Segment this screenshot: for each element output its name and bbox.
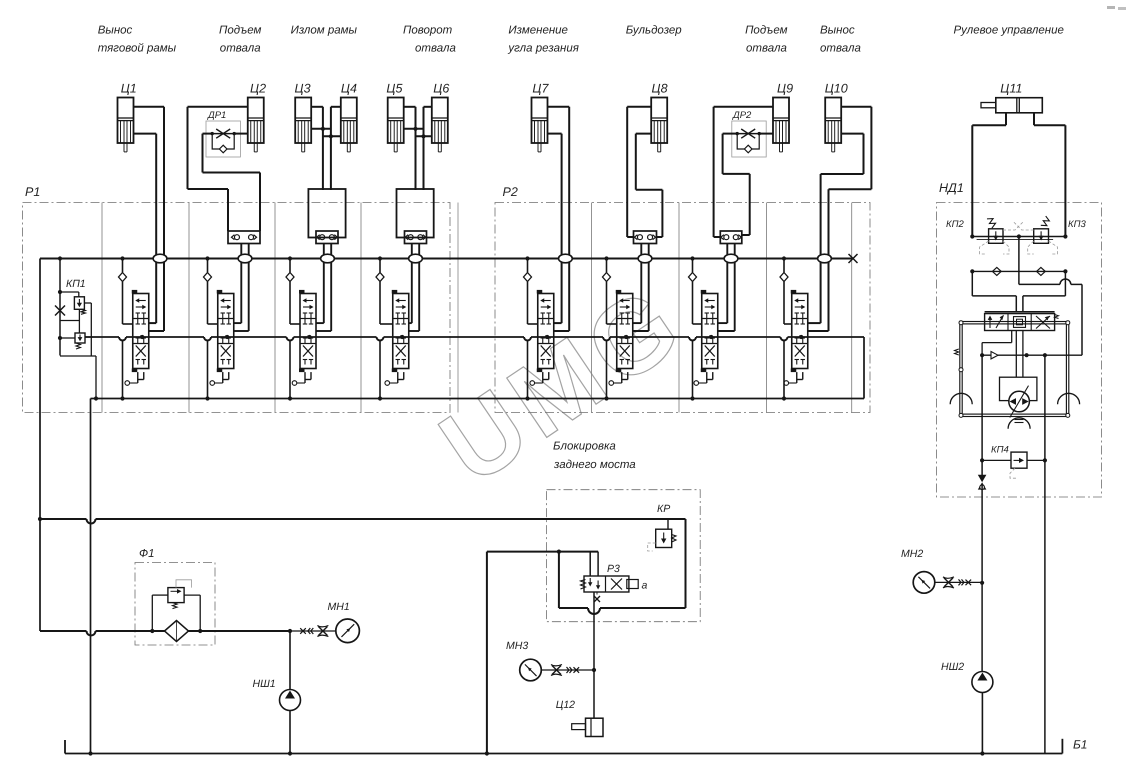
cylinder Ц1 (118, 98, 134, 152)
label Ц9 (777, 82, 793, 96)
valve section 2 spool (210, 290, 234, 385)
svg-text:КП2: КП2 (946, 219, 964, 230)
svg-text:Ц12: Ц12 (556, 699, 575, 711)
valve section 2 mid connection dot (225, 335, 229, 339)
svg-text:КП1: КП1 (66, 278, 86, 290)
hydraulic lock section 7 (720, 231, 742, 244)
valve section 1 drain to tank bus (120, 340, 124, 400)
svg-text:Ц4: Ц4 (341, 82, 357, 96)
valve section 8 feed with check valve (780, 256, 792, 324)
svg-text:а: а (642, 580, 648, 592)
cylinder Ц6 (432, 98, 448, 152)
steering spool valve (985, 312, 1059, 331)
wire spool to metering unit (1016, 331, 1023, 378)
filter Ф1 boundary (135, 548, 215, 645)
wire НД1 return to tank (1044, 355, 1046, 753)
wire pilot down to steering spool (1019, 237, 1082, 356)
svg-text:отвала: отвала (220, 43, 261, 55)
valve section 7 drain to tank bus (690, 340, 694, 400)
svg-text:Ц6: Ц6 (433, 82, 449, 96)
label group-9 Рулевое управление (954, 25, 1064, 37)
svg-text:МН3: МН3 (506, 640, 528, 652)
svg-text:заднего моста: заднего моста (553, 459, 636, 471)
svg-text:Блокировка: Блокировка (553, 441, 616, 453)
wire НД1 feed from НШ2 (980, 355, 984, 671)
label group-1 Вынос тяговой рамы (98, 25, 177, 55)
valve block P1 boundary (23, 185, 451, 413)
hydraulic lock section 4 (405, 231, 427, 244)
wire Ц9 piston side to lock (714, 107, 774, 237)
cylinder Ц9 (773, 98, 789, 152)
throttle ДР2 (732, 110, 766, 157)
label group-5 Изменение угла резания (507, 25, 579, 55)
gauge МН2 (901, 548, 982, 593)
wire Ц8 rod side to lock (636, 134, 663, 237)
gauge МН1 (290, 601, 359, 643)
label group-6 Бульдозер (626, 25, 683, 37)
cylinder Ц5 (388, 98, 404, 152)
steering unit НД1 boundary (937, 181, 1102, 497)
pump НШ2 (941, 661, 993, 756)
bridge crossing section 8 (818, 254, 832, 263)
label Ц3 (295, 82, 311, 96)
svg-text:Ц5: Ц5 (386, 82, 402, 96)
valve section 5 drain to tank bus (525, 340, 529, 400)
cylinder Ц2 (248, 98, 264, 152)
label Ц5 (386, 82, 402, 96)
svg-text:Ц9: Ц9 (777, 82, 793, 96)
pressure bus line (40, 258, 853, 260)
svg-text:Ф1: Ф1 (139, 548, 155, 560)
svg-text:Вынос: Вынос (98, 25, 133, 37)
tank line Б1 (65, 738, 1087, 754)
wire Ц11 to steering unit (972, 113, 1065, 237)
valve Р3 (581, 563, 648, 602)
svg-text:Вынос: Вынос (820, 25, 855, 37)
rear axle lock block boundary (547, 441, 701, 622)
valve section 3 mid connection dot (307, 335, 311, 339)
tank bus left drop (88, 399, 92, 756)
wire cylinder lines into spool (972, 271, 1065, 311)
label group-2 Подъем отвала (219, 25, 261, 55)
svg-text:Ц3: Ц3 (295, 82, 311, 96)
valve section 3 spool (292, 290, 316, 385)
cylinder Ц7 (532, 98, 548, 152)
svg-text:угла резания: угла резания (507, 43, 579, 55)
bridge crossing section 5 (559, 254, 573, 263)
svg-text:НШ2: НШ2 (941, 661, 964, 673)
wire Ц1 to section 1 (134, 107, 165, 331)
valve section 8 mid connection dot (799, 335, 803, 339)
svg-text:Ц2: Ц2 (250, 82, 266, 96)
valve section 6 spool (609, 290, 633, 385)
label Ц7 (532, 82, 549, 96)
filter Ф1 (150, 580, 202, 642)
label group-7 Подъем отвала (745, 25, 787, 55)
P1 section divider lines (102, 203, 458, 413)
wire filter to pump junction (189, 629, 293, 633)
label Ц2 (250, 82, 266, 96)
label Ц10 (825, 82, 848, 96)
svg-text:Изменение: Изменение (508, 25, 568, 37)
svg-text:отвала: отвала (415, 43, 456, 55)
wire Ц7 to section 5 (547, 107, 569, 331)
svg-text:Р1: Р1 (25, 185, 40, 199)
pressure bus plug X (849, 254, 858, 263)
svg-text:Р3: Р3 (607, 563, 620, 575)
valve section 3 feed with check valve (286, 256, 300, 324)
bridge crossing section 4 (409, 254, 423, 263)
valve section 5 feed with check valve (524, 256, 538, 324)
cylinder Ц11 (981, 98, 1042, 113)
valve section 2 feed with check valve (204, 256, 218, 324)
gallery to tank right end (863, 337, 865, 399)
connector box section 4 (397, 189, 434, 238)
wire КП2-КП3 crossline (970, 234, 1067, 239)
svg-text:НШ1: НШ1 (253, 678, 276, 690)
label Ц4 (341, 82, 357, 96)
cylinder Ц3 (295, 98, 311, 152)
svg-text:МН2: МН2 (901, 548, 923, 560)
label Ц8 (652, 82, 668, 96)
relief valve КП1 (55, 256, 98, 400)
lock foot section 4 (409, 244, 419, 332)
label group-3 Излом рамы (291, 25, 358, 37)
valve section 1 mid connection dot (140, 335, 144, 339)
svg-text:Р2: Р2 (503, 185, 518, 199)
relief valve КР (648, 503, 676, 551)
valve section 4 drain to tank bus (378, 340, 382, 400)
svg-text:МН1: МН1 (328, 601, 350, 613)
wire Ц9 rod side via ДР2 to lock (723, 134, 774, 235)
valve section 7 mid connection dot (709, 335, 713, 339)
connector box section 3 (308, 189, 345, 238)
steering pilot line (980, 331, 1082, 359)
svg-text:Рулевое управление: Рулевое управление (954, 25, 1064, 37)
valve section 5 spool (530, 290, 554, 385)
return line into filter (40, 631, 165, 636)
svg-text:Ц1: Ц1 (121, 82, 137, 96)
valve section 7 spool (694, 290, 718, 385)
lock foot section 7 (718, 244, 735, 332)
bridge crossing section 3 (321, 254, 335, 263)
label Ц6 (433, 82, 449, 96)
check valve bottom (978, 475, 987, 490)
bridge crossing section 6 (638, 254, 652, 263)
pressure line left drop (38, 259, 42, 632)
cylinder Ц10 (825, 98, 841, 152)
bridge crossing section 7 (724, 254, 738, 263)
watermark UMG (421, 263, 704, 507)
torque link arcs (950, 393, 1079, 428)
pressure tap line to rear-axle block (40, 519, 686, 756)
valve section 8 spool (784, 290, 808, 385)
svg-text:КП3: КП3 (1068, 219, 1086, 230)
wire Ц2 rod side via ДР1 to lock (203, 134, 261, 231)
cylinder Ц4 (341, 98, 357, 152)
valve section 6 mid connection dot (624, 335, 628, 339)
svg-text:Излом рамы: Излом рамы (291, 25, 358, 37)
valve section 4 feed with check valve (376, 256, 393, 324)
wire Р3 to Ц12 (592, 592, 596, 718)
lock foot section 2 (234, 244, 249, 332)
wire Ц10 rod side to section 8 (808, 134, 864, 324)
relief valve КП4 (980, 445, 1047, 479)
lock foot section 6 (633, 244, 649, 332)
valve section 7 feed with check valve (689, 256, 702, 324)
valve section 8 drain to tank bus (782, 340, 786, 400)
cylinder Ц12 (556, 699, 603, 737)
wire Ц10 piston side to section 8 (808, 107, 872, 331)
svg-text:отвала: отвала (746, 43, 787, 55)
valve section 6 feed with check valve (603, 256, 617, 324)
sheet mark top right (1107, 6, 1126, 10)
label group-8 Вынос отвала (820, 25, 861, 55)
svg-text:ДР1: ДР1 (207, 110, 226, 121)
svg-text:отвала: отвала (820, 43, 861, 55)
relief valve КП3 (1014, 216, 1087, 254)
P2 section divider lines (592, 203, 852, 413)
bridge crossing section 1 (153, 254, 167, 263)
wire Ц3-Ц4 cross connection (311, 107, 341, 190)
valve section 3 drain to tank bus (288, 340, 292, 400)
svg-text:НД1: НД1 (939, 181, 964, 195)
check valves row (970, 267, 1067, 275)
relief valve КП2 (946, 216, 1023, 254)
valve section 4 spool (385, 290, 409, 385)
hydraulic lock section 3 (316, 231, 338, 244)
svg-text:КР: КР (657, 503, 670, 515)
valve block P2 boundary (495, 185, 870, 413)
valve section 2 drain to tank bus (205, 340, 209, 400)
lock foot section 3 (316, 244, 331, 332)
tank bus line (91, 398, 865, 400)
cylinder Ц8 (651, 98, 667, 152)
bridge crossing section 2 (238, 254, 252, 263)
wire Ц5-Ц6 cross connection (404, 107, 432, 190)
svg-text:Ц11: Ц11 (1000, 82, 1022, 96)
svg-text:ДР2: ДР2 (732, 110, 752, 121)
svg-text:КП4: КП4 (991, 445, 1009, 456)
valve section 5 mid connection dot (545, 335, 549, 339)
throttle ДР1 (206, 110, 240, 157)
label Ц1 (121, 82, 137, 96)
valve section 1 feed with check valve (119, 256, 133, 324)
hydraulic lock section 6 (634, 231, 657, 244)
gerotor feedback loop (955, 321, 1070, 418)
svg-text:Поворот: Поворот (403, 25, 453, 37)
label Ц11 (1000, 82, 1022, 96)
pump НШ1 (253, 631, 301, 756)
svg-text:Ц8: Ц8 (652, 82, 668, 96)
gauge МН3 (506, 640, 594, 681)
wire Ц8 piston side to lock (627, 107, 651, 237)
svg-text:Ц7: Ц7 (532, 82, 549, 96)
svg-text:Бульдозер: Бульдозер (626, 25, 683, 37)
valve section 1 spool (125, 290, 149, 385)
svg-text:Ц10: Ц10 (825, 82, 848, 96)
hydraulic lock section 2 (228, 231, 260, 244)
svg-text:Б1: Б1 (1073, 738, 1087, 752)
valve section 6 drain to tank bus (604, 340, 608, 400)
wire Ц2 piston side to lock (188, 107, 249, 231)
svg-text:Подъем: Подъем (219, 25, 261, 37)
svg-text:тяговой рамы: тяговой рамы (98, 43, 177, 55)
metering unit (1000, 377, 1037, 417)
svg-text:Подъем: Подъем (745, 25, 787, 37)
mid gallery line (85, 337, 864, 341)
label group-4 Поворот отвала (403, 25, 456, 55)
wire Р3 feed (590, 552, 598, 576)
valve section 4 mid connection dot (400, 335, 404, 339)
